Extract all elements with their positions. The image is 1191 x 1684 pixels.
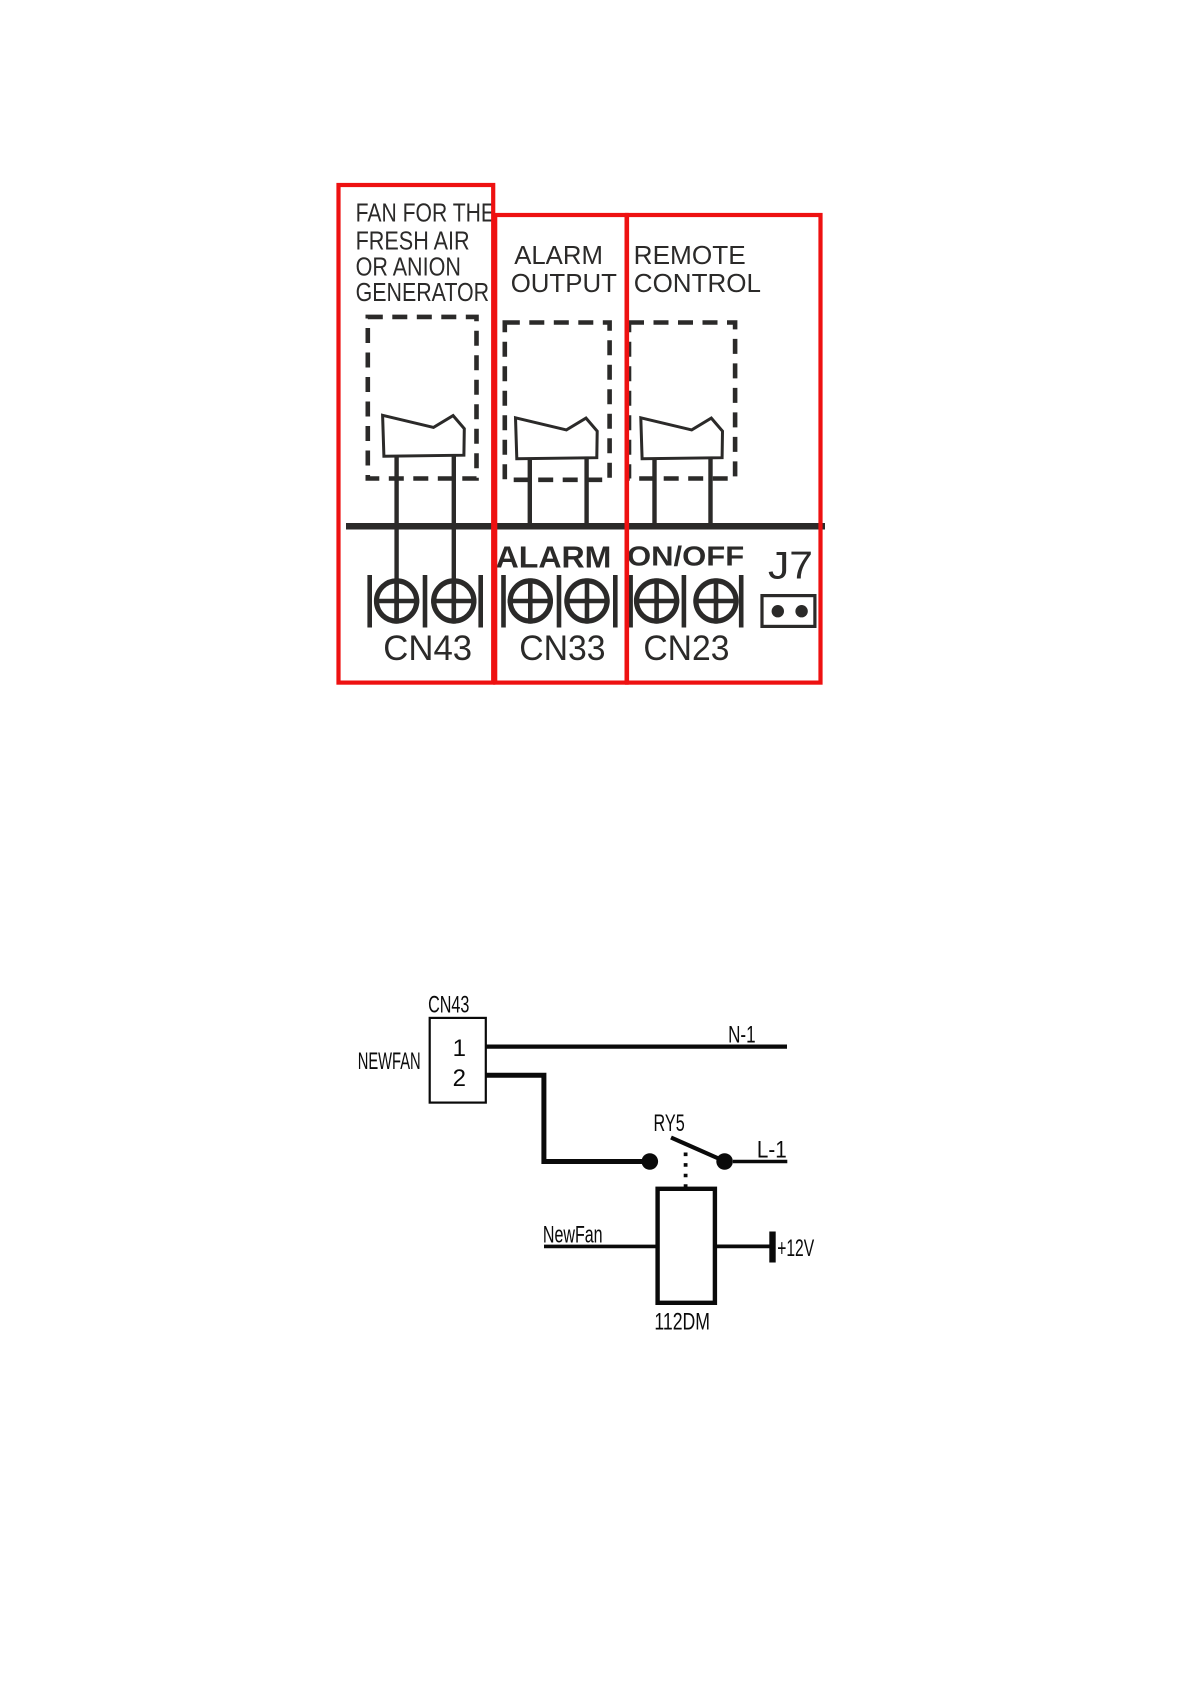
dashed relay box 1 (fan) bbox=[368, 317, 477, 479]
J7 pin 2 dot bbox=[795, 605, 807, 617]
svg-text:N-1: N-1 bbox=[728, 1021, 756, 1048]
rocker switch 2 (alarm relay) bbox=[516, 418, 598, 459]
wire pin 2 to relay contact bbox=[486, 1075, 644, 1161]
bus line (terminal block top edge) bbox=[346, 523, 825, 530]
red highlight box 3 (remote section) bbox=[627, 215, 821, 683]
svg-text:ALARM: ALARM bbox=[514, 240, 603, 270]
svg-text:ON/OFF: ON/OFF bbox=[627, 540, 744, 571]
svg-text:CN23: CN23 bbox=[643, 628, 729, 668]
svg-text:2: 2 bbox=[453, 1065, 466, 1092]
wire L-1 net bbox=[733, 1160, 787, 1163]
svg-text:1: 1 bbox=[453, 1035, 466, 1062]
relay RY5 contact right dot bbox=[716, 1153, 733, 1170]
label REMOTE CONTROL bbox=[634, 240, 761, 298]
wire CN33 pin1 bbox=[528, 452, 532, 528]
wire CN43 pin1 bbox=[394, 452, 398, 623]
svg-text:GENERATOR: GENERATOR bbox=[356, 277, 490, 307]
wire CN33 pin2 bbox=[584, 452, 588, 528]
svg-text:NewFan: NewFan bbox=[543, 1221, 603, 1248]
connector CN43 body bbox=[430, 1018, 486, 1103]
svg-text:NEWFAN: NEWFAN bbox=[358, 1048, 421, 1075]
red highlight box 1 (fan section) bbox=[339, 185, 494, 683]
+12V power bar bbox=[769, 1232, 775, 1263]
svg-text:RY5: RY5 bbox=[654, 1110, 685, 1137]
relay RY5 contact arm bbox=[671, 1138, 723, 1161]
label ALARM OUTPUT bbox=[511, 240, 617, 298]
dotted link contact to coil bbox=[684, 1153, 688, 1189]
wire CN23 pin1 bbox=[652, 452, 656, 528]
terminal bars CN43 bbox=[370, 575, 481, 628]
svg-text:REMOTE: REMOTE bbox=[634, 240, 746, 270]
rocker switch 1 (fan relay) bbox=[383, 415, 465, 456]
connector J7 body bbox=[762, 596, 815, 627]
svg-text:FAN FOR THE: FAN FOR THE bbox=[356, 197, 495, 227]
svg-text:CN33: CN33 bbox=[519, 628, 605, 668]
label FAN FOR THE FRESH AIR OR ANION GENERATOR bbox=[356, 197, 495, 307]
terminal bars CN33 bbox=[504, 575, 616, 628]
dashed relay box 3 (remote) bbox=[629, 323, 735, 479]
wire coil to +12V bbox=[715, 1245, 770, 1249]
svg-text:CN43: CN43 bbox=[428, 992, 469, 1019]
svg-text:L-1: L-1 bbox=[757, 1136, 787, 1163]
screw terminal circles CN23 bbox=[634, 578, 739, 623]
svg-text:+12V: +12V bbox=[777, 1235, 814, 1262]
wire CN43 pin2 bbox=[452, 452, 456, 623]
svg-text:J7: J7 bbox=[768, 545, 813, 588]
terminal bars CN23 bbox=[631, 575, 742, 628]
screw terminal circles CN33 bbox=[508, 578, 610, 623]
svg-text:CONTROL: CONTROL bbox=[634, 268, 761, 298]
red highlight box 2 (alarm section) bbox=[495, 215, 626, 683]
wire N-1 (pin 1 net) bbox=[486, 1044, 787, 1048]
relay coil 112DM body bbox=[658, 1189, 715, 1303]
dashed relay box 2 (alarm) bbox=[505, 323, 610, 480]
svg-text:ALARM: ALARM bbox=[496, 539, 612, 574]
J7 pin 1 dot bbox=[772, 605, 784, 617]
wire NewFan to coil bbox=[544, 1245, 658, 1249]
screw terminal circles CN43 bbox=[374, 578, 476, 623]
svg-text:CN43: CN43 bbox=[383, 628, 472, 668]
svg-text:OUTPUT: OUTPUT bbox=[511, 268, 617, 298]
wire CN23 pin2 bbox=[708, 452, 712, 528]
rocker switch 3 (remote relay) bbox=[641, 418, 723, 459]
svg-text:112DM: 112DM bbox=[654, 1309, 710, 1336]
relay RY5 contact left dot bbox=[642, 1153, 659, 1170]
